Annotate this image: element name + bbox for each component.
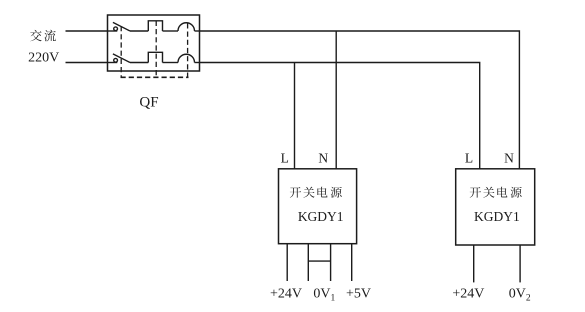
power supply U1 box (开关电源 KGDY1) xyxy=(279,169,357,244)
wire: bottom line from QF to right, turning down to L of PSU2 xyxy=(200,63,480,169)
svg-text:KGDY1: KGDY1 xyxy=(298,209,344,224)
label 开关电源 in U2 xyxy=(470,187,522,198)
wire: U2 output +24V lead xyxy=(473,245,475,282)
svg-text:KGDY1: KGDY1 xyxy=(474,209,520,224)
svg-text:+24V: +24V xyxy=(452,287,484,302)
wire: U1 output +24V lead xyxy=(286,244,288,281)
wire: U1 output 0V leads joined by bar xyxy=(307,244,309,281)
power supply U2 box (开关电源 KGDY1) xyxy=(456,169,535,245)
svg-text:+24V: +24V xyxy=(270,287,302,302)
wire: U1 output +5V lead xyxy=(351,244,353,281)
svg-text:N: N xyxy=(504,150,514,165)
wire L input from 交流 label to QF xyxy=(66,30,108,32)
circuit breaker QF outline box xyxy=(108,15,200,71)
wire N input from 220V label to QF xyxy=(66,62,108,64)
svg-text:+5V: +5V xyxy=(346,287,371,302)
breaker QF mechanical linkage dashed lines xyxy=(121,21,189,78)
svg-text:L: L xyxy=(465,150,473,165)
label 交流 (AC) xyxy=(30,30,56,42)
breaker QF pole 2 (bottom): contact, blade, thermal element, magnetic element xyxy=(108,52,200,62)
label 开关电源 in U1 xyxy=(290,187,342,198)
svg-text:QF: QF xyxy=(139,94,158,110)
wire: drop to L of PSU1 (junction on bottom line) xyxy=(294,63,296,169)
wire: U2 output 0V lead xyxy=(519,245,521,282)
svg-text:N: N xyxy=(318,150,328,165)
wire: bar joining the two 0V leads of U1 xyxy=(308,260,330,262)
wire: top line from QF to right, turning down to N of PSU2 xyxy=(200,31,520,169)
svg-text:L: L xyxy=(281,150,289,165)
breaker QF pole 1 (top): contact, blade, thermal element, magnetic element xyxy=(108,21,200,31)
wire: drop to N of PSU1 (junction on top line, crosses bottom line) xyxy=(335,31,337,169)
svg-text:220V: 220V xyxy=(28,50,59,65)
